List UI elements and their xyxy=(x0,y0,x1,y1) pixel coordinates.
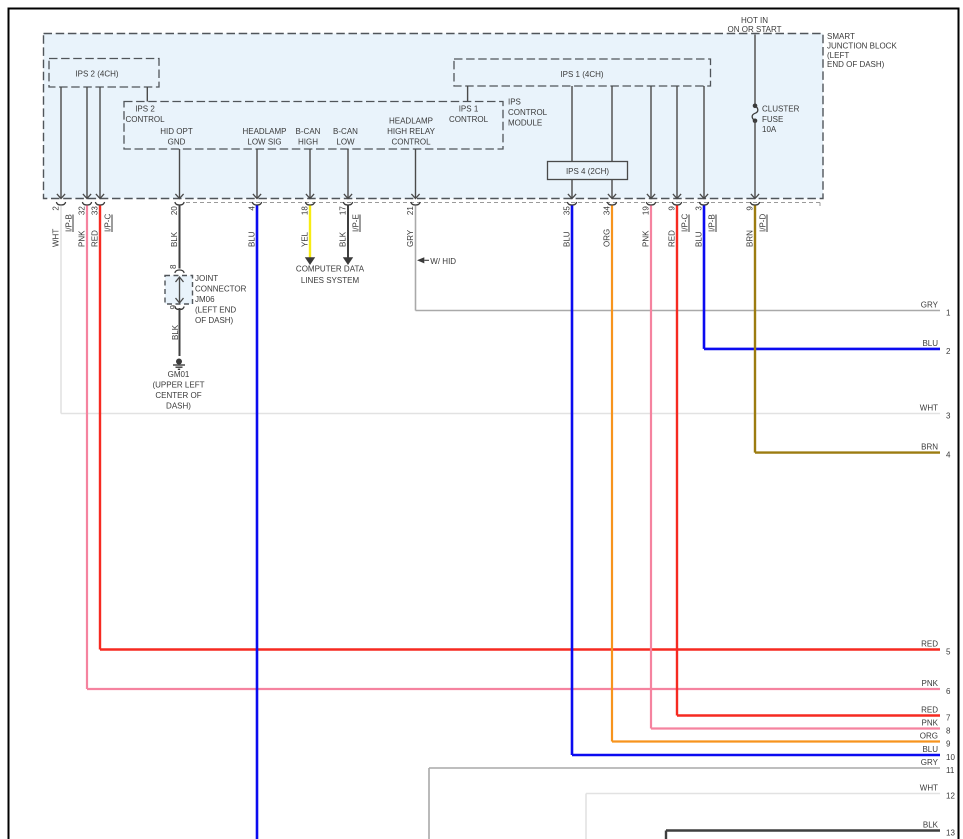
pin 4 BLU connector xyxy=(252,202,261,205)
svg-text:CLUSTER: CLUSTER xyxy=(762,105,800,114)
svg-text:34: 34 xyxy=(603,206,612,215)
wire 7 RED horizontal xyxy=(677,714,940,716)
svg-text:BRN: BRN xyxy=(746,230,755,247)
svg-text:32: 32 xyxy=(78,206,87,215)
svg-text:END OF DASH): END OF DASH) xyxy=(827,60,885,69)
svg-text:GRY: GRY xyxy=(406,229,415,247)
svg-text:GRY: GRY xyxy=(921,758,939,767)
wire 4 BRN horizontal xyxy=(755,451,940,453)
svg-text:19: 19 xyxy=(642,206,651,215)
svg-text:RED: RED xyxy=(668,230,677,247)
svg-text:IPS 4 (2CH): IPS 4 (2CH) xyxy=(566,167,609,176)
svg-text:8: 8 xyxy=(946,727,951,736)
svg-text:GND: GND xyxy=(168,138,186,147)
svg-text:BLK: BLK xyxy=(171,324,180,340)
svg-text:9: 9 xyxy=(169,304,178,309)
svg-text:FUSE: FUSE xyxy=(762,115,783,124)
svg-text:LOW SIG: LOW SIG xyxy=(247,138,281,147)
svg-text:I/P-D: I/P-D xyxy=(759,214,768,232)
svg-text:JOINT: JOINT xyxy=(195,274,218,283)
svg-text:2: 2 xyxy=(946,347,951,356)
wire pin3 inside SJB xyxy=(703,86,705,198)
smart junction block SJB dashed box xyxy=(44,34,824,199)
wire pin17 inside SJB xyxy=(347,149,349,198)
svg-text:WHT: WHT xyxy=(920,784,938,793)
wire BLU pin35 vertical xyxy=(571,206,574,756)
svg-text:WHT: WHT xyxy=(920,404,938,413)
joint connector JM06 box xyxy=(175,270,184,273)
svg-text:PNK: PNK xyxy=(78,230,87,247)
svg-text:JM06: JM06 xyxy=(195,295,215,304)
svg-text:HEADLAMP: HEADLAMP xyxy=(389,117,433,126)
wire IPS2-4CH to control box xyxy=(146,87,148,102)
IPS control box xyxy=(124,102,503,150)
svg-text:5: 5 xyxy=(946,648,951,657)
svg-text:CONTROL: CONTROL xyxy=(391,138,431,147)
wire PNK pin19 vertical xyxy=(650,206,652,729)
svg-text:DASH): DASH) xyxy=(166,402,191,411)
svg-text:11: 11 xyxy=(946,766,955,775)
svg-text:ON OR START: ON OR START xyxy=(728,25,782,34)
wire hot-in to fuse xyxy=(754,35,756,106)
pin 9 BRN connector xyxy=(750,202,759,205)
svg-text:21: 21 xyxy=(406,206,415,215)
wire 6 PNK horizontal xyxy=(87,688,940,690)
wire BLK JM06 to ground xyxy=(179,308,181,356)
svg-text:LOW: LOW xyxy=(336,138,355,147)
svg-text:8: 8 xyxy=(169,264,178,269)
svg-text:GM01: GM01 xyxy=(168,370,190,379)
IPS 4 (2CH) box xyxy=(548,162,628,180)
svg-text:13: 13 xyxy=(946,829,955,838)
pin 9 RED connector xyxy=(672,202,681,205)
svg-text:CONTROL: CONTROL xyxy=(125,115,165,124)
svg-text:ORG: ORG xyxy=(920,732,938,741)
svg-text:17: 17 xyxy=(339,206,348,215)
svg-text:3: 3 xyxy=(946,412,951,421)
svg-text:9: 9 xyxy=(946,740,951,749)
arrow YEL to computer data lines xyxy=(305,257,315,265)
svg-text:IPS 2 (4CH): IPS 2 (4CH) xyxy=(75,70,118,79)
wire RED pin9 vertical xyxy=(676,206,678,716)
pin 35 BLU connector xyxy=(567,202,576,205)
svg-text:BLU: BLU xyxy=(695,231,704,247)
svg-text:PNK: PNK xyxy=(922,679,939,688)
pin 19 PNK connector xyxy=(646,202,655,205)
svg-text:RED: RED xyxy=(921,706,938,715)
wire pin20 inside SJB xyxy=(179,149,181,198)
svg-text:I/P-C: I/P-C xyxy=(681,214,690,232)
wire 10 BLU horizontal xyxy=(572,754,940,757)
svg-text:(LEFT: (LEFT xyxy=(827,51,849,60)
svg-text:GRY: GRY xyxy=(921,301,939,310)
wire ORG pin34 vertical xyxy=(611,206,613,742)
svg-text:MODULE: MODULE xyxy=(508,119,542,128)
pin 20 BLK connector xyxy=(175,202,184,205)
svg-text:HOT IN: HOT IN xyxy=(741,16,768,25)
svg-text:LINES SYSTEM: LINES SYSTEM xyxy=(301,276,360,285)
svg-text:B-CAN: B-CAN xyxy=(333,127,358,136)
svg-text:35: 35 xyxy=(563,206,572,215)
wire 12 WHT elbow xyxy=(586,793,940,795)
svg-text:CONTROL: CONTROL xyxy=(449,115,489,124)
svg-text:HEADLAMP: HEADLAMP xyxy=(242,127,286,136)
wire IPS1-4CH to IPS4 left xyxy=(571,86,573,162)
svg-text:7: 7 xyxy=(946,714,951,723)
wire BLK pin20 to JM06 xyxy=(179,206,181,269)
svg-text:PNK: PNK xyxy=(642,230,651,247)
svg-text:9: 9 xyxy=(668,206,677,211)
svg-text:ORG: ORG xyxy=(603,229,612,247)
pin 17 BLK connector xyxy=(343,202,352,205)
wire 11 GRY elbow xyxy=(429,767,940,769)
wire BRN pin9 vertical xyxy=(754,206,756,453)
wire pin32 inside SJB xyxy=(86,87,88,198)
svg-text:OF DASH): OF DASH) xyxy=(195,316,234,325)
svg-text:BLK: BLK xyxy=(339,231,348,247)
svg-text:HID OPT: HID OPT xyxy=(160,127,193,136)
wire pin33 inside SJB xyxy=(99,87,101,198)
wire 13 BLK elbow xyxy=(666,829,940,831)
svg-text:20: 20 xyxy=(170,206,179,215)
arrow BLK to computer data lines xyxy=(343,257,353,265)
wire 2 BLU horizontal xyxy=(704,348,940,351)
svg-text:IPS 1 (4CH): IPS 1 (4CH) xyxy=(560,70,603,79)
wire pin34 inside SJB xyxy=(611,180,613,198)
pin 2 WHT connector xyxy=(56,202,65,205)
wire 8 PNK horizontal xyxy=(651,727,940,729)
wire pin2 inside SJB xyxy=(60,87,62,198)
wire WHT pin2 vertical xyxy=(60,206,62,414)
wire 3 WHT horizontal xyxy=(61,413,940,415)
wire IPS1-4CH to control box xyxy=(467,86,469,102)
pin 32 PNK connector xyxy=(82,202,91,205)
svg-text:(LEFT END: (LEFT END xyxy=(195,306,236,315)
svg-text:BLK: BLK xyxy=(170,231,179,247)
svg-text:4: 4 xyxy=(248,206,257,211)
svg-text:I/P-C: I/P-C xyxy=(104,214,113,232)
svg-text:CONTROL: CONTROL xyxy=(508,108,548,117)
svg-text:IPS 1: IPS 1 xyxy=(459,105,479,114)
svg-text:SMART: SMART xyxy=(827,32,855,41)
svg-text:HIGH: HIGH xyxy=(298,138,318,147)
pin 3 BLU connector xyxy=(699,202,708,205)
svg-text:1: 1 xyxy=(946,309,951,318)
svg-text:BRN: BRN xyxy=(921,443,938,452)
svg-text:JUNCTION BLOCK: JUNCTION BLOCK xyxy=(827,41,897,50)
pin 34 ORG connector xyxy=(607,202,616,205)
pin 21 GRY connector xyxy=(411,202,420,205)
wire PNK pin32 vertical xyxy=(86,206,88,690)
wire pin21 inside SJB xyxy=(415,149,417,198)
svg-text:6: 6 xyxy=(946,687,951,696)
svg-text:BLU: BLU xyxy=(922,339,938,348)
svg-text:33: 33 xyxy=(91,206,100,215)
svg-text:RED: RED xyxy=(91,230,100,247)
wire BLK pin17 xyxy=(347,206,349,259)
svg-text:18: 18 xyxy=(301,206,310,215)
svg-text:BLK: BLK xyxy=(923,821,939,830)
wire BLU pin4 vertical xyxy=(256,206,259,839)
svg-text:YEL: YEL xyxy=(301,231,310,247)
wire pin18 inside SJB xyxy=(309,149,311,198)
wire 9 ORG horizontal xyxy=(612,740,940,742)
wire YEL pin18 xyxy=(309,206,311,259)
svg-text:HIGH RELAY: HIGH RELAY xyxy=(387,127,436,136)
svg-text:BLU: BLU xyxy=(922,745,938,754)
wire pin9red inside SJB xyxy=(676,86,678,198)
svg-text:(UPPER LEFT: (UPPER LEFT xyxy=(152,381,204,390)
svg-text:IPS 2: IPS 2 xyxy=(135,105,155,114)
svg-text:COMPUTER DATA: COMPUTER DATA xyxy=(296,265,365,274)
svg-text:W/ HID: W/ HID xyxy=(430,257,456,266)
wire RED pin33 vertical xyxy=(99,206,101,650)
connector row dashed line xyxy=(186,202,820,204)
wire fuse to pin9brn xyxy=(754,121,756,198)
wire 5 RED horizontal xyxy=(100,648,940,650)
svg-text:10: 10 xyxy=(946,753,955,762)
svg-text:12: 12 xyxy=(946,792,955,801)
IPS 2 (4CH) box xyxy=(49,59,159,88)
svg-text:I/P-B: I/P-B xyxy=(708,214,717,232)
IPS 1 (4CH) box xyxy=(454,59,711,86)
pin 33 RED connector xyxy=(95,202,104,205)
svg-text:10A: 10A xyxy=(762,125,777,134)
svg-text:I/P-E: I/P-E xyxy=(352,214,361,232)
svg-text:4: 4 xyxy=(946,451,951,460)
wire BLU pin3 vertical xyxy=(703,206,706,349)
svg-text:CONNECTOR: CONNECTOR xyxy=(195,285,247,294)
svg-text:CENTER OF: CENTER OF xyxy=(155,391,201,400)
wire GRY pin21 vertical xyxy=(415,206,417,311)
cluster fuse 10A xyxy=(753,104,758,109)
wire 1 GRY horizontal xyxy=(416,310,941,312)
svg-text:BLU: BLU xyxy=(248,231,257,247)
svg-text:BLU: BLU xyxy=(563,231,572,247)
svg-text:2: 2 xyxy=(52,206,61,211)
svg-text:I/P-B: I/P-B xyxy=(65,214,74,232)
wire IPS1-4CH to IPS4 right xyxy=(611,86,613,162)
W/ HID annotation xyxy=(417,257,424,263)
wire pin19 inside SJB xyxy=(650,86,652,198)
ground GM01 xyxy=(176,359,182,365)
svg-text:9: 9 xyxy=(746,206,755,211)
svg-text:IPS: IPS xyxy=(508,98,521,107)
wire pin4 inside SJB xyxy=(256,149,258,198)
svg-text:B-CAN: B-CAN xyxy=(296,127,321,136)
svg-text:PNK: PNK xyxy=(922,719,939,728)
svg-text:RED: RED xyxy=(921,640,938,649)
svg-text:3: 3 xyxy=(695,206,704,211)
pin 18 YEL connector xyxy=(305,202,314,205)
svg-text:WHT: WHT xyxy=(52,229,61,247)
wire pin35 inside SJB xyxy=(571,180,573,198)
